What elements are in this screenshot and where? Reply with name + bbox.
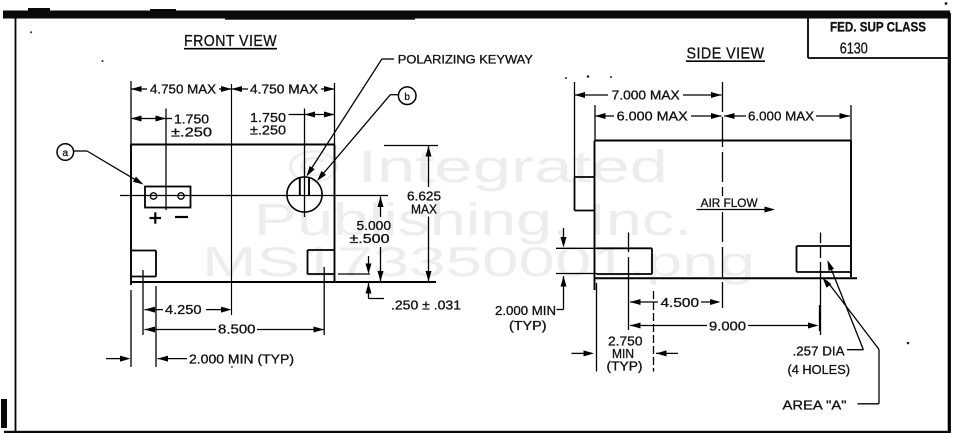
svg-text:MAX: MAX [411, 203, 438, 217]
svg-text:SIDE VIEW: SIDE VIEW [687, 46, 765, 63]
dimension 2.000 MIN (TYP) side [563, 228, 565, 237]
svg-text:FED. SUP CLASS: FED. SUP CLASS [830, 20, 926, 35]
side view left foot centerline [628, 233, 630, 253]
front view bottom mounting line [131, 281, 436, 283]
svg-text:6.000 MAX: 6.000 MAX [748, 110, 815, 124]
side view body outline [595, 140, 852, 142]
dimension 6.625 MAX [428, 146, 430, 187]
extension line body bottom left [556, 273, 597, 275]
extension line tab left upper [574, 82, 576, 177]
dimension 4.250 [145, 307, 156, 313]
side view right foot centerline [820, 233, 822, 244]
dimension 4.500 [630, 299, 641, 305]
svg-text:a: a [63, 148, 69, 159]
svg-text:4.750 MAX: 4.750 MAX [250, 83, 319, 97]
leader from balloon a [74, 150, 87, 152]
extension line keyway center [304, 109, 306, 218]
svg-text:±.250: ±.250 [171, 126, 212, 140]
svg-text:(TYP): (TYP) [607, 360, 643, 374]
right border line [948, 13, 951, 433]
svg-text:AIR FLOW: AIR FLOW [701, 196, 759, 210]
svg-text:6130: 6130 [840, 41, 868, 58]
leader from .257 DIA to hole [847, 349, 863, 351]
extension line left edge upper [130, 81, 132, 145]
front view horizontal centerline [120, 195, 388, 197]
polarizing keyway slot [299, 177, 301, 195]
front view vertical centerline [231, 84, 233, 282]
extension line 2.750 right dashed [653, 291, 655, 372]
front view body outline [131, 144, 335, 146]
extension line body left upper [594, 105, 596, 141]
terminal block [145, 187, 191, 208]
front view right foot [308, 249, 335, 251]
leader from AREA A to mounting surface [858, 403, 880, 405]
speck [102, 60, 104, 62]
side view bottom mounting line [595, 277, 858, 279]
svg-text:4.250: 4.250 [165, 303, 202, 317]
svg-text:2.000 MIN: 2.000 MIN [495, 304, 556, 318]
svg-text:(TYP): (TYP) [509, 319, 547, 333]
extension line body right upper [850, 105, 852, 141]
speck [30, 31, 32, 33]
svg-text:.250 ± .031: .250 ± .031 [391, 299, 461, 313]
leader from balloon b [390, 94, 398, 96]
speck [565, 77, 567, 79]
terminal screw right [178, 193, 184, 199]
terminal screw left [150, 193, 156, 199]
front view left foot [132, 250, 156, 252]
svg-text:9.000: 9.000 [709, 320, 746, 334]
svg-text:FRONT VIEW: FRONT VIEW [184, 33, 277, 50]
svg-text:6.625: 6.625 [407, 190, 441, 204]
svg-text:6.000 MAX: 6.000 MAX [617, 110, 689, 124]
extension line right edge upper [334, 83, 336, 145]
svg-text:b: b [404, 92, 410, 103]
svg-text:(4 HOLES): (4 HOLES) [788, 363, 851, 377]
speck [945, 2, 948, 5]
side view left foot [597, 247, 653, 249]
svg-text:2.000 MIN (TYP): 2.000 MIN (TYP) [189, 353, 294, 367]
FED SUP CLASS box [807, 19, 809, 59]
dimension 9.000 [630, 323, 641, 329]
dimension 7.000 MAX [575, 94, 609, 96]
dimension 8.500 [145, 327, 156, 333]
svg-text:±.250: ±.250 [250, 124, 286, 138]
front view right foot centerline [323, 267, 325, 335]
left border line [15, 18, 17, 433]
extension line 9.000 right [819, 305, 821, 331]
top border bar [3, 11, 950, 19]
dimension 2.750 MIN (TYP) [572, 352, 586, 354]
dimension 5.000 ±.500 [380, 197, 382, 218]
front view left foot centerline [142, 270, 144, 335]
dimension 4.750 MAX left [131, 88, 147, 90]
dimension .250 ±.031 [368, 256, 370, 264]
svg-text:POLARIZING KEYWAY: POLARIZING KEYWAY [398, 53, 533, 67]
speck [231, 366, 233, 368]
dimension 4.750 MAX right [232, 88, 249, 90]
side view right foot [797, 245, 852, 247]
speck [907, 342, 910, 345]
balloon b [398, 87, 416, 105]
svg-text:5.000: 5.000 [357, 219, 392, 233]
dimension 1.750 right [289, 114, 305, 116]
side view terminal tab [575, 176, 595, 178]
extension line foot top left [556, 247, 597, 249]
bottom border line [4, 431, 948, 433]
extension line 2.750 left [596, 283, 598, 372]
svg-text:1.750: 1.750 [174, 113, 209, 127]
dimension 1.750 left [131, 118, 166, 120]
extension line terminal center [165, 109, 167, 211]
svg-text:.257 DIA: .257 DIA [793, 345, 846, 359]
extension line top edge right [384, 145, 438, 147]
svg-text:7.000 MAX: 7.000 MAX [612, 89, 681, 103]
balloon a [57, 144, 74, 161]
extension line left foot right lower [155, 286, 157, 367]
side view vertical centerline [722, 82, 724, 196]
dimension 2.000 MIN (TYP) front [106, 358, 121, 360]
front view right foot bottom extension line [338, 273, 370, 275]
svg-text:AREA "A": AREA "A" [783, 399, 847, 413]
dimension 6.000 MAX right [724, 115, 746, 117]
extension line left edge lower [130, 290, 132, 367]
plus polarity mark [150, 217, 162, 219]
svg-text:4.500: 4.500 [661, 296, 700, 310]
dimension 6.000 MAX left [595, 115, 614, 117]
svg-text:±.500: ±.500 [350, 232, 390, 246]
leader from POLARIZING KEYWAY [382, 58, 394, 60]
minus polarity mark [175, 216, 188, 218]
polarizing keyway circle [287, 177, 322, 212]
svg-text:8.500: 8.500 [218, 323, 256, 337]
svg-text:4.750 MAX: 4.750 MAX [150, 83, 217, 97]
